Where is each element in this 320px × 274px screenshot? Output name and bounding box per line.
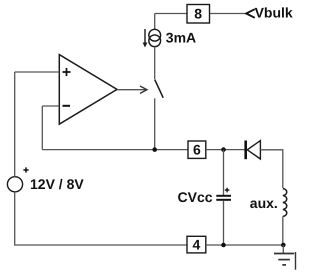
svg-text:Vbulk: Vbulk [255, 4, 293, 20]
diode D1 (cathode left) [246, 141, 261, 160]
wire fragment right edge [295, 252, 297, 270]
current source I1 (two interlocking circles with down arrow) [143, 29, 161, 48]
pin 4 terminal box [187, 236, 206, 253]
svg-text:3mA: 3mA [166, 30, 196, 46]
pin 6 terminal box [188, 141, 206, 158]
wire from pin 8 to Vbulk arrow [210, 13, 247, 15]
svg-text:4: 4 [193, 237, 201, 253]
wire non-inverting input horizontal [15, 71, 60, 73]
wire inverting input horizontal [42, 105, 59, 107]
wire from top node down to current source [154, 14, 156, 30]
svg-text:CVcc: CVcc [178, 189, 213, 205]
pin 8 terminal box [187, 5, 210, 24]
wire pin 6 to diode [206, 149, 245, 151]
junction ground node [281, 243, 286, 248]
junction capacitor/bottom rail [221, 243, 226, 248]
svg-text:12V / 8V: 12V / 8V [30, 176, 84, 192]
ground [274, 245, 294, 265]
wire left vertical top (op-amp + to source) [14, 72, 16, 177]
wire feedback horizontal to pin 6 [42, 149, 188, 151]
wire diode to aux winding corner [260, 150, 282, 188]
svg-text:8: 8 [194, 6, 202, 22]
op-amp U1 [59, 55, 117, 125]
svg-text:6: 6 [193, 142, 201, 158]
inductor aux winding [283, 189, 287, 217]
wire aux winding to ground node [282, 216, 284, 245]
wire feedback vertical [41, 106, 43, 150]
wire from current source to switch [154, 47, 156, 79]
op-amp output arrow to switch [117, 86, 147, 93]
junction switch/feedback node [152, 147, 157, 152]
wire left vertical bottom (source to bottom rail) [15, 192, 187, 245]
svg-text:aux.: aux. [250, 195, 278, 211]
wire from switch bottom to pin 6 node [154, 98, 156, 149]
node Vbulk (arrow + label) [246, 4, 293, 20]
junction Vcc/capacitor node [221, 147, 226, 152]
wire top horizontal from switch node to pin 8 [155, 13, 187, 15]
voltage source V1 [7, 167, 28, 192]
capacitor CVcc [216, 150, 231, 245]
switch S1 blade [155, 80, 164, 98]
wire pin 4 to ground node [206, 244, 284, 246]
